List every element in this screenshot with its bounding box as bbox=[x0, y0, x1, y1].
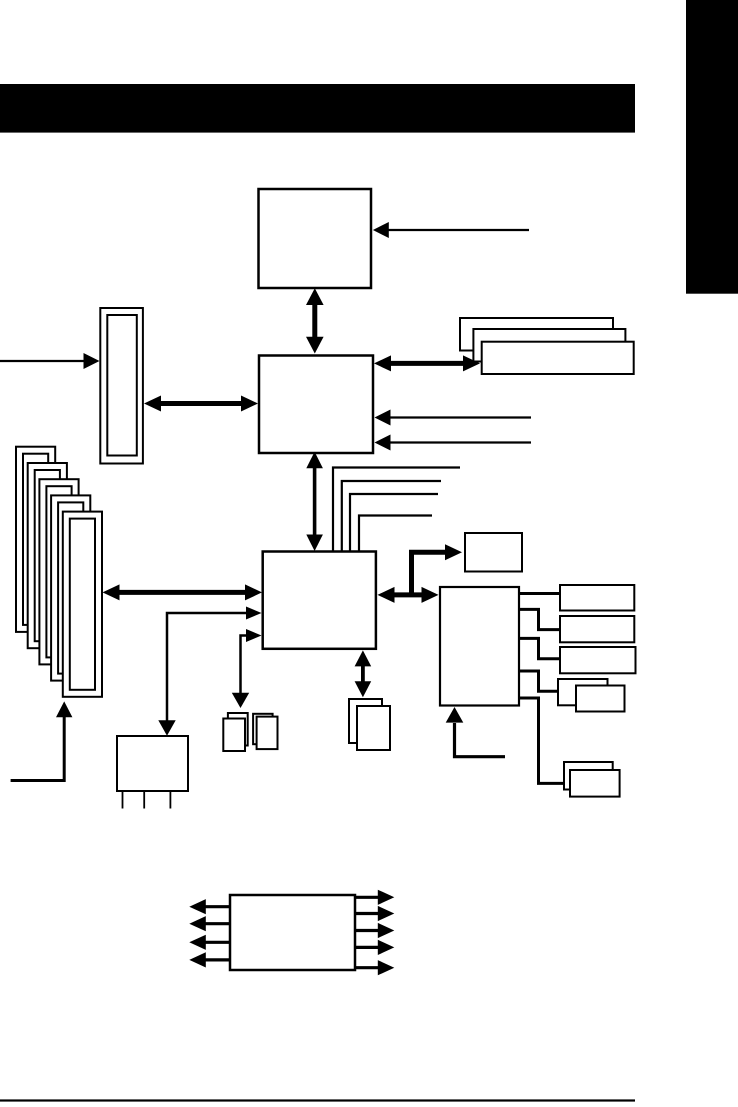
wire: north bridge to south bridge double arrow bbox=[306, 452, 323, 551]
wire: thin arrow into north bridge right edge (upper) bbox=[375, 410, 532, 426]
wire: L-line 2 bbox=[342, 481, 441, 552]
south bridge box bbox=[263, 552, 376, 649]
wire: PCI to south bridge double arrow bbox=[103, 584, 263, 600]
USB header right pair back box bbox=[253, 714, 273, 744]
wire: audio right arrow 3 bbox=[355, 923, 394, 938]
wire: audio left arrow 1 bbox=[189, 899, 230, 914]
PCI slot 2 outer bbox=[28, 463, 67, 648]
right edge black tab bbox=[686, 0, 738, 294]
north bridge box bbox=[259, 356, 373, 454]
wire: audio left arrow 4 bbox=[189, 952, 230, 967]
wire: south bridge to IDE double arrow (bottom) bbox=[355, 650, 372, 697]
USB header right pair front box bbox=[257, 717, 278, 750]
wire: south bridge to small box thick elbow arrow bbox=[412, 544, 463, 595]
wire: north bridge to memory double arrow bbox=[374, 355, 480, 371]
box A (COM) bbox=[560, 585, 634, 611]
BIOS box bbox=[117, 736, 188, 791]
CPU box bbox=[259, 189, 372, 288]
audio codec box bbox=[230, 895, 355, 970]
PCI slot 4 inner bbox=[58, 502, 83, 673]
PCI slot 2 inner bbox=[35, 470, 60, 641]
PCI slot 3 inner bbox=[46, 486, 71, 657]
USB header left pair front box bbox=[223, 719, 245, 752]
IDE twin box front bbox=[357, 706, 390, 750]
PCI slot 5 inner bbox=[70, 519, 95, 690]
wire: connector to box E bbox=[519, 698, 565, 783]
box B (LPT) bbox=[560, 616, 634, 642]
wire: audio right arrow 4 bbox=[355, 940, 394, 955]
wire: south bridge to USB headers elbow double arrow bbox=[232, 629, 262, 708]
wire: audio left arrow 3 bbox=[189, 935, 230, 950]
AGP slot inner bbox=[107, 315, 137, 456]
PCI slot 1 outer (back) bbox=[16, 447, 55, 632]
BIOS leg 1 bbox=[122, 791, 124, 809]
box D front (PS/2) bbox=[576, 686, 625, 712]
wire: L-line 4 bbox=[359, 516, 432, 552]
PCI slot 3 outer bbox=[39, 479, 78, 664]
wire: L-line 3 bbox=[350, 494, 438, 552]
IDE twin box back bbox=[349, 699, 382, 743]
super IO box bbox=[440, 587, 519, 706]
wire: connector to box C bbox=[519, 638, 560, 658]
wire: connector to box B bbox=[519, 609, 560, 629]
wire: south bridge to super IO double arrow bbox=[378, 587, 439, 603]
footer rule line bbox=[0, 1099, 635, 1101]
wire: south bridge to BIOS elbow double arrow bbox=[158, 607, 261, 736]
memory DIMM slot 2 (middle) bbox=[473, 329, 625, 362]
memory DIMM slot 3 (front) bbox=[482, 342, 634, 374]
box E back (game port) bbox=[564, 762, 613, 790]
box D back (PS/2) bbox=[558, 679, 608, 705]
wire: connector to box D bbox=[519, 671, 558, 691]
wire: clock line into CPU right edge bbox=[373, 222, 529, 238]
BIOS leg 2 bbox=[143, 791, 145, 809]
PCI slot 5 outer (front) bbox=[63, 512, 102, 697]
box E front (game port) bbox=[570, 770, 620, 797]
USB header left pair back box bbox=[228, 713, 248, 746]
wire: L-line 1 from south bridge top to upper right bbox=[333, 468, 460, 552]
wire: AGP to north bridge double arrow bbox=[144, 396, 258, 412]
header black bar bbox=[0, 84, 635, 133]
AGP slot outer bbox=[100, 308, 143, 464]
small box upper right of south bridge bbox=[465, 533, 522, 572]
wire: arrow up into super IO from below bbox=[446, 707, 505, 757]
wire: audio left arrow 2 bbox=[189, 916, 230, 931]
PCI slot 1 inner bbox=[23, 454, 48, 625]
wire: arrow up into PCI slots from lower left bbox=[11, 701, 73, 780]
wire: audio right arrow 2 bbox=[355, 906, 394, 921]
PCI slot 4 outer bbox=[51, 495, 90, 680]
wire: thin arrow into north bridge right edge (lower) bbox=[375, 435, 532, 451]
wire: CPU to north bridge double arrow bbox=[306, 288, 324, 353]
BIOS leg 3 bbox=[169, 791, 171, 809]
wire: audio right arrow 5 bbox=[355, 960, 394, 975]
memory DIMM slot 1 (back) bbox=[460, 318, 613, 351]
box C (floppy) bbox=[560, 647, 636, 673]
wire: arrow into AGP from left page edge bbox=[0, 353, 100, 369]
wire: audio right arrow 1 bbox=[355, 890, 394, 905]
wire: connector to box A bbox=[519, 592, 560, 595]
